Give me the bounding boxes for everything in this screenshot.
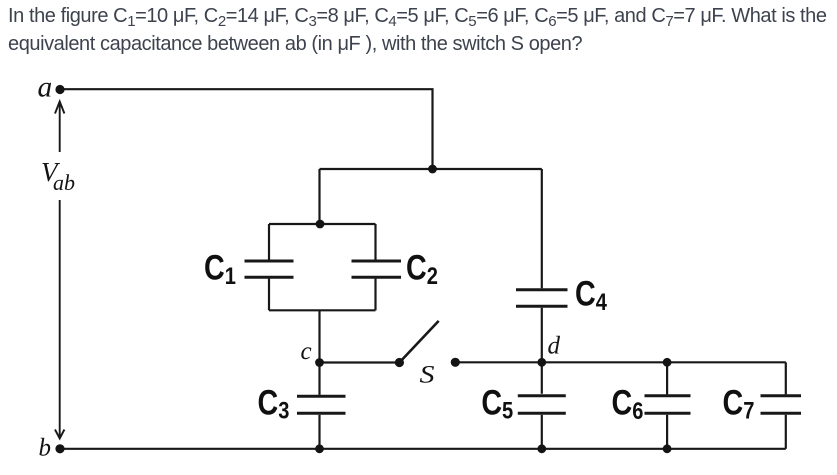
svg-text:C1: C1 bbox=[204, 248, 236, 289]
svg-text:S: S bbox=[420, 362, 436, 389]
svg-text:C3: C3 bbox=[257, 383, 289, 424]
svg-text:C7: C7 bbox=[723, 383, 755, 424]
svg-text:C4: C4 bbox=[575, 274, 607, 315]
svg-text:C5: C5 bbox=[481, 383, 513, 424]
svg-text:C2: C2 bbox=[406, 248, 438, 289]
svg-text:b: b bbox=[39, 434, 52, 461]
svg-text:C6: C6 bbox=[611, 383, 643, 424]
svg-text:d: d bbox=[548, 332, 561, 359]
svg-text:c: c bbox=[301, 338, 312, 365]
svg-text:Vab: Vab bbox=[41, 157, 75, 195]
svg-text:a: a bbox=[38, 72, 53, 104]
